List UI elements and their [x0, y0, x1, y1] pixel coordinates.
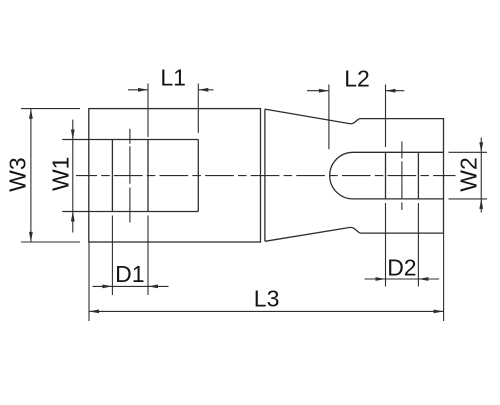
taper joint line: [264, 109, 266, 241]
hole D1 right line: [147, 140, 149, 212]
dimension W1: [71, 120, 75, 233]
hole D1 left line: [111, 140, 113, 212]
left body outline: [89, 109, 261, 242]
svg-text:L1: L1: [160, 64, 186, 90]
taper top edge: [265, 109, 361, 124]
svg-text:W2: W2: [456, 157, 482, 192]
svg-text:W3: W3: [5, 157, 31, 192]
hole D2 left line: [385, 152, 387, 199]
taper bottom edge: [265, 227, 361, 241]
label D2: [387, 254, 416, 280]
dimension D2: [365, 203, 440, 287]
label L1: [160, 64, 186, 90]
right slot top edge: [353, 151, 444, 153]
svg-text:D2: D2: [387, 254, 416, 280]
hole D2 vertical centerline: [401, 141, 403, 210]
label W1: [48, 157, 74, 192]
left slot top edge: [62, 139, 198, 141]
label D1: [115, 261, 144, 287]
left slot right edge: [197, 140, 199, 212]
svg-text:W1: W1: [48, 157, 74, 192]
label L2: [344, 66, 370, 92]
left slot bottom edge: [62, 211, 198, 213]
dimension L2: [307, 85, 404, 150]
right slot bottom edge: [353, 198, 444, 200]
dimension D1: [93, 216, 169, 296]
horizontal centerline: [76, 175, 456, 177]
label L3: [254, 285, 280, 311]
label W3: [5, 157, 31, 192]
svg-text:L2: L2: [344, 66, 370, 92]
hole D2 right line: [417, 152, 419, 199]
hole D1 vertical centerline: [129, 129, 131, 223]
dimension W3: [21, 109, 80, 242]
svg-text:D1: D1: [115, 261, 144, 287]
svg-text:L3: L3: [254, 285, 280, 311]
dimension L3: [89, 234, 444, 322]
right slot arc: [330, 152, 353, 199]
label W2: [456, 157, 482, 192]
right body outline: [361, 119, 444, 234]
dimension L1: [128, 84, 214, 138]
dimension W2: [449, 138, 488, 213]
